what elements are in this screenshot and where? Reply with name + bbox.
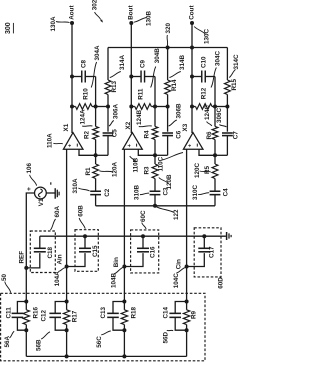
dashed box 50	[1, 293, 205, 361]
terminal Bout node	[128, 5, 135, 25]
svg-text:304C: 304C	[215, 50, 222, 66]
ground rail	[40, 235, 226, 237]
svg-text:+: +	[26, 187, 33, 191]
svg-text:56D: 56D	[162, 331, 169, 343]
svg-text:320: 320	[165, 22, 172, 33]
label 304B leader	[151, 48, 161, 88]
label 306A leader	[109, 103, 119, 126]
ground symbol right	[227, 232, 232, 240]
svg-text:C2: C2	[104, 188, 111, 197]
capacitor C4	[210, 188, 230, 206]
label 110B leader	[130, 156, 140, 173]
svg-text:C3: C3	[163, 187, 170, 196]
svg-text:R11: R11	[138, 88, 145, 100]
label 106 leader	[26, 162, 36, 185]
wire output C	[191, 23, 193, 133]
resistor R15	[225, 48, 238, 107]
capacitor C6	[155, 107, 182, 156]
node pair-C12 top	[65, 300, 69, 304]
svg-text:C5: C5	[111, 129, 118, 138]
svg-text:R18: R18	[130, 306, 137, 318]
svg-text:R14: R14	[171, 79, 178, 91]
node 60D bottom	[185, 265, 189, 269]
node inverting A	[94, 153, 98, 157]
resistor R16	[23, 302, 39, 331]
resistor R2	[83, 107, 98, 156]
source V1	[35, 187, 47, 206]
figure number 300	[5, 22, 13, 34]
junction A feedback right	[106, 105, 110, 109]
svg-text:130A: 130A	[50, 16, 57, 32]
label 306B leader	[169, 103, 183, 126]
capacitor C14	[162, 302, 186, 331]
svg-text:120C: 120C	[194, 162, 201, 178]
node 60A bottom	[24, 266, 28, 270]
svg-text:60B: 60B	[77, 205, 84, 217]
resistor R11	[131, 88, 155, 109]
node pair-C12 bottom	[65, 328, 69, 332]
svg-text:310C: 310C	[192, 184, 199, 200]
label 310C leader	[192, 184, 209, 200]
label 130B leader	[134, 10, 153, 26]
svg-text:Ain: Ain	[57, 254, 64, 264]
label Ain	[57, 254, 64, 264]
svg-text:C14: C14	[162, 306, 169, 318]
terminal Cout node	[188, 5, 195, 25]
svg-text:R5: R5	[204, 165, 211, 174]
wire pair-C13 drop	[123, 330, 125, 356]
svg-text:Cout: Cout	[188, 5, 195, 20]
capacitor C5	[96, 107, 119, 156]
svg-text:X3: X3	[182, 123, 189, 131]
label 310B leader	[134, 184, 150, 200]
wire noninverting input B	[123, 149, 125, 301]
net 122 rail	[96, 205, 215, 207]
capacitor C10	[192, 56, 215, 107]
dashed box 60C	[131, 230, 159, 273]
svg-text:302: 302	[91, 0, 98, 10]
resistor R10	[72, 88, 96, 110]
resistor R6	[206, 107, 218, 156]
node pair-C11 top	[24, 300, 28, 304]
svg-text:314C: 314C	[233, 54, 240, 70]
terminal Aout node	[68, 5, 75, 25]
junction B feedback right	[166, 105, 170, 109]
node pair-C13 top	[122, 300, 126, 304]
svg-text:306A: 306A	[112, 103, 119, 119]
junction Cout on 320 rail	[190, 46, 194, 50]
capacitor C3	[150, 187, 170, 206]
junction rail C13	[122, 354, 126, 358]
label REF	[18, 251, 25, 264]
ground at V1	[46, 188, 59, 199]
resistor R3	[143, 155, 158, 191]
capacitor C18	[26, 236, 54, 268]
label 130C leader	[194, 27, 210, 45]
node output-B res tap	[129, 105, 133, 109]
svg-text:Bout: Bout	[128, 5, 135, 20]
junction on 320 rail	[166, 46, 170, 50]
svg-text:124C: 124C	[204, 104, 211, 120]
label 56C leader	[96, 331, 111, 348]
svg-text:V1: V1	[38, 198, 45, 206]
label 56A leader	[4, 331, 14, 347]
svg-text:130C: 130C	[204, 28, 211, 44]
svg-text:Bin: Bin	[113, 257, 120, 267]
node output-B cap tap	[129, 75, 133, 79]
dashed box 60A	[30, 231, 55, 273]
label 60A leader	[50, 205, 61, 230]
svg-text:R15: R15	[231, 78, 238, 90]
svg-text:C16: C16	[150, 246, 157, 258]
svg-text:60A: 60A	[54, 205, 61, 217]
dashed box 60B	[75, 230, 98, 272]
svg-text:310A: 310A	[72, 178, 79, 194]
capacitor C8	[72, 59, 96, 106]
svg-text:R12: R12	[201, 87, 208, 99]
label 110A leader	[46, 133, 62, 148]
capacitor C13	[100, 302, 124, 331]
label 124A leader	[80, 109, 93, 126]
svg-text:56C: 56C	[96, 336, 103, 348]
resistor R5	[204, 155, 218, 191]
svg-text:C4: C4	[223, 188, 230, 197]
op-amp X1	[63, 123, 83, 149]
svg-text:Aout: Aout	[68, 5, 75, 20]
label Cin	[176, 259, 183, 269]
label 104B leader	[110, 267, 123, 288]
label 104A leader	[54, 268, 65, 287]
junction C3 on 122	[153, 204, 157, 208]
svg-text:60C: 60C	[140, 210, 147, 222]
svg-text:304B: 304B	[154, 48, 161, 64]
dashed box 60D	[194, 228, 221, 277]
label 56D leader	[162, 330, 173, 343]
resistor R13	[105, 48, 118, 107]
label 60D leader	[217, 277, 224, 289]
label 306C leader	[216, 107, 227, 127]
resistor R4	[143, 107, 158, 156]
capacitor C12	[40, 302, 66, 331]
junction rail C12	[65, 354, 69, 358]
node output-C cap tap	[190, 75, 194, 79]
wire output A	[71, 23, 73, 133]
svg-text:C17: C17	[208, 246, 215, 258]
svg-text:104A: 104A	[54, 271, 61, 287]
wire pair-C11 drop	[25, 330, 27, 356]
junction B feedback left	[153, 105, 157, 109]
label 124B leader	[136, 109, 152, 126]
op-amp X3	[182, 123, 203, 149]
resistor R12	[192, 87, 215, 109]
svg-text:106: 106	[26, 162, 33, 173]
label 60C leader	[140, 210, 147, 229]
junction C feedback right	[225, 105, 229, 109]
svg-text:C13: C13	[100, 306, 107, 318]
resistor R17	[63, 302, 78, 331]
svg-text:120B: 120B	[166, 174, 173, 190]
label minus V1	[50, 182, 52, 184]
node output-A res tap	[70, 105, 74, 109]
node pair-C11 bottom	[24, 328, 28, 332]
svg-text:60D: 60D	[217, 277, 224, 289]
svg-text:R3: R3	[143, 166, 150, 175]
svg-text:X2: X2	[125, 121, 132, 129]
label plus V1	[26, 187, 33, 191]
node 60C bottom	[122, 265, 126, 269]
svg-text:C10: C10	[200, 56, 207, 68]
node output-C res tap	[190, 105, 194, 109]
resistor R1	[85, 155, 99, 191]
svg-text:120A: 120A	[111, 161, 118, 177]
svg-text:110C: 110C	[157, 156, 164, 171]
svg-text:R16: R16	[32, 306, 39, 318]
svg-text:C8: C8	[80, 59, 87, 68]
resistor R9	[183, 302, 197, 331]
svg-text:314A: 314A	[119, 54, 126, 70]
svg-text:122: 122	[173, 209, 180, 220]
label Bin	[113, 257, 120, 267]
svg-text:304A: 304A	[94, 45, 101, 61]
svg-text:124A: 124A	[80, 109, 87, 125]
label 124C leader	[204, 104, 212, 126]
label 314A leader	[110, 54, 126, 77]
svg-text:110A: 110A	[46, 133, 53, 148]
label 56B leader	[36, 332, 50, 351]
svg-text:300: 300	[5, 22, 12, 34]
svg-text:Cin: Cin	[176, 259, 183, 269]
node inverting B	[153, 153, 157, 157]
node inverting C	[213, 153, 217, 157]
wire pair-C14 drop	[186, 330, 188, 356]
svg-text:R17: R17	[72, 310, 79, 322]
svg-text:R9: R9	[191, 310, 198, 319]
svg-text:104B: 104B	[110, 272, 117, 288]
node output-A cap tap	[70, 75, 74, 79]
label 304A leader	[91, 45, 101, 88]
node pair-C14 bottom	[185, 328, 189, 332]
svg-text:R13: R13	[111, 80, 118, 92]
svg-text:C7: C7	[232, 131, 239, 140]
wire noninverting input A	[66, 149, 68, 301]
op-amp X2	[123, 121, 143, 149]
junction A feedback left	[94, 105, 98, 109]
svg-text:50: 50	[1, 273, 8, 281]
svg-text:R4: R4	[143, 130, 150, 139]
svg-text:R6: R6	[206, 131, 213, 140]
svg-text:R10: R10	[83, 88, 90, 100]
capacitor C7	[215, 107, 239, 156]
capacitor C16	[124, 234, 156, 266]
label 130A leader	[50, 16, 70, 32]
wire junction row C	[215, 106, 227, 108]
label 104C leader	[173, 268, 186, 289]
label 50 leader	[1, 273, 11, 292]
label 110C leader	[157, 153, 183, 172]
label 60B leader	[77, 205, 85, 229]
svg-text:314B: 314B	[179, 54, 186, 70]
wire junction row A	[96, 106, 108, 108]
svg-text:C11: C11	[6, 307, 13, 319]
capacitor C11	[6, 302, 27, 331]
capacitor C2	[90, 188, 111, 206]
label 302 with arrow	[91, 0, 103, 23]
svg-text:104C: 104C	[173, 273, 180, 289]
label 320	[165, 22, 172, 45]
capacitor C17	[187, 234, 216, 266]
wire inverting input A	[79, 149, 96, 155]
wire pair-C12 drop	[66, 330, 68, 356]
resistor R18	[121, 302, 137, 331]
svg-text:R1: R1	[85, 167, 92, 176]
label 314C leader	[229, 54, 240, 78]
label 120B leader	[159, 174, 173, 190]
label 122 leader	[157, 207, 180, 220]
wire noninverting input C	[186, 149, 188, 301]
svg-text:R2: R2	[83, 130, 90, 139]
node 60B bottom	[65, 265, 69, 269]
svg-text:C18: C18	[47, 246, 54, 258]
junction C feedback left	[213, 105, 217, 109]
capacitor C9	[131, 59, 155, 106]
svg-text:124B: 124B	[136, 109, 143, 125]
wire V1 to REF	[26, 193, 34, 302]
svg-text:REF: REF	[18, 251, 25, 264]
svg-text:C12: C12	[40, 309, 47, 321]
bottom common rail	[26, 355, 186, 357]
capacitor C15	[67, 234, 99, 266]
svg-text:306C: 306C	[216, 107, 223, 123]
node pair-C13 bottom	[122, 328, 126, 332]
svg-text:C9: C9	[140, 59, 147, 68]
label 314B leader	[169, 54, 186, 77]
label 120C leader	[194, 162, 211, 178]
wire inverting input C	[199, 149, 215, 155]
svg-text:310B: 310B	[134, 184, 141, 200]
label 120A leader	[99, 161, 118, 177]
svg-text:306B: 306B	[175, 103, 182, 119]
svg-text:X1: X1	[63, 123, 70, 131]
wire junction row B	[155, 106, 168, 108]
svg-text:130B: 130B	[146, 10, 153, 26]
wire inverting input B	[138, 149, 155, 155]
svg-text:C15: C15	[92, 245, 99, 257]
label 304C leader	[211, 50, 222, 87]
svg-text:56B: 56B	[36, 339, 43, 351]
net 320 rail	[108, 47, 227, 49]
resistor R14	[165, 48, 179, 107]
node pair-C14 top	[185, 300, 189, 304]
label 310A leader	[72, 178, 90, 194]
wire output B	[130, 23, 132, 133]
